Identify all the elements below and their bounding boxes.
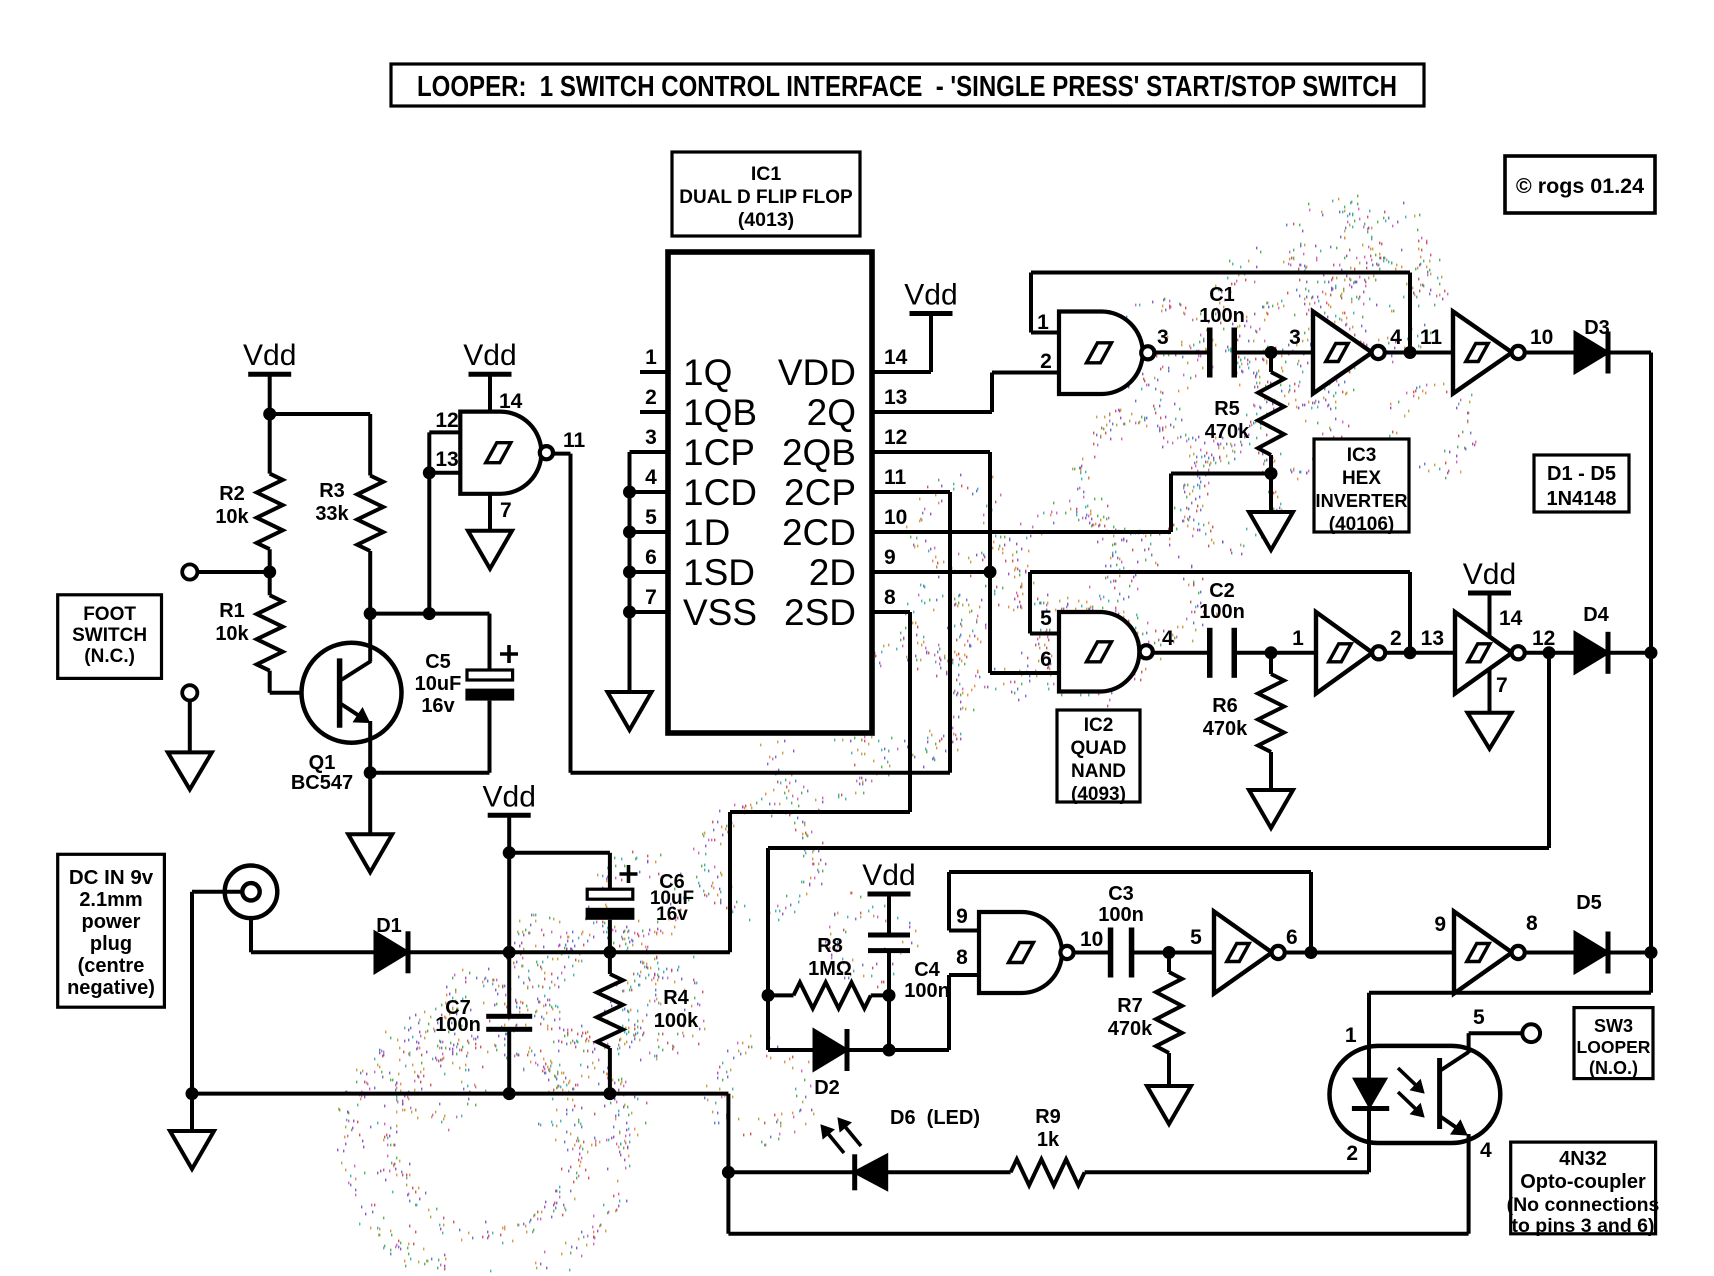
svg-text:HEX: HEX [1342,468,1381,489]
svg-text:negative): negative) [67,977,155,999]
svg-text:9: 9 [884,546,896,569]
svg-text:R4: R4 [663,987,689,1009]
svg-text:SW3: SW3 [1594,1016,1633,1036]
svg-text:C4: C4 [914,959,940,981]
svg-text:Opto-coupler: Opto-coupler [1520,1171,1646,1193]
svg-text:100n: 100n [435,1014,481,1036]
svg-text:1k: 1k [1037,1129,1060,1151]
svg-text:2: 2 [1390,627,1402,650]
svg-text:(centre: (centre [78,955,145,977]
svg-text:4N32: 4N32 [1559,1148,1607,1170]
svg-text:INVERTER: INVERTER [1316,491,1408,511]
svg-text:D4: D4 [1583,604,1609,626]
svg-text:R5: R5 [1214,398,1240,420]
svg-text:470k: 470k [1108,1018,1153,1040]
svg-text:10: 10 [1080,928,1103,951]
svg-text:10: 10 [884,506,907,529]
svg-text:DUAL D FLIP FLOP: DUAL D FLIP FLOP [679,187,853,208]
svg-text:LOOPER: 1 SWITCH CONTROL INTE: LOOPER: 1 SWITCH CONTROL INTERFACE - 'SI… [417,71,1397,103]
svg-text:2QB: 2QB [782,432,856,473]
svg-text:C3: C3 [1108,883,1134,905]
svg-text:Vdd: Vdd [243,339,296,372]
svg-text:12: 12 [435,409,458,432]
svg-text:2SD: 2SD [784,592,856,633]
svg-text:14: 14 [499,390,523,413]
svg-text:LOOPER: LOOPER [1577,1037,1651,1057]
svg-text:5: 5 [645,506,657,529]
svg-text:(N.C.): (N.C.) [84,646,135,667]
svg-text:FOOT: FOOT [83,604,136,625]
svg-text:IC1: IC1 [751,163,782,185]
svg-text:9: 9 [1434,913,1446,936]
svg-text:12: 12 [1532,627,1555,650]
svg-text:9: 9 [956,905,968,928]
svg-text:R3: R3 [319,480,345,502]
svg-text:100n: 100n [1199,305,1245,327]
svg-text:2CD: 2CD [782,512,856,553]
svg-text:11: 11 [563,429,586,452]
svg-text:R6: R6 [1212,695,1238,717]
svg-text:D6 (LED): D6 (LED) [890,1107,980,1129]
svg-text:1CD: 1CD [683,472,757,513]
svg-text:10k: 10k [215,506,249,528]
svg-text:power: power [82,911,141,933]
svg-text:2CP: 2CP [784,472,856,513]
svg-text:NAND: NAND [1071,761,1126,782]
svg-text:(N.O.): (N.O.) [1589,1058,1638,1078]
svg-text:(4093): (4093) [1071,784,1126,805]
svg-text:100n: 100n [1098,904,1144,926]
svg-text:8: 8 [956,946,968,969]
svg-text:Vdd: Vdd [463,339,516,372]
svg-text:12: 12 [884,426,907,449]
svg-text:11: 11 [884,466,907,489]
svg-text:4: 4 [645,466,657,489]
svg-text:R2: R2 [219,483,245,505]
svg-text:D5: D5 [1576,892,1602,914]
svg-text:Q1: Q1 [309,752,336,774]
svg-text:plug: plug [90,933,132,955]
svg-text:Vdd: Vdd [904,279,957,312]
svg-text:8: 8 [884,586,896,609]
svg-text:IC2: IC2 [1084,715,1114,736]
svg-text:3: 3 [645,426,657,449]
svg-text:13: 13 [884,386,907,409]
svg-text:2: 2 [1346,1142,1358,1165]
svg-text:1MΩ: 1MΩ [808,958,852,980]
svg-text:R9: R9 [1035,1106,1061,1128]
svg-text:11: 11 [1420,326,1443,349]
svg-text:16v: 16v [421,695,455,717]
svg-text:QUAD: QUAD [1071,738,1127,759]
svg-text:4: 4 [1480,1139,1492,1162]
svg-text:SWITCH: SWITCH [72,625,147,646]
svg-text:6: 6 [645,546,657,569]
svg-text:5: 5 [1040,607,1052,630]
svg-text:D3: D3 [1584,317,1610,339]
svg-text:© rogs 01.24: © rogs 01.24 [1516,174,1644,198]
svg-text:R7: R7 [1117,995,1143,1017]
svg-text:100n: 100n [904,980,950,1002]
svg-text:VSS: VSS [683,592,757,633]
svg-text:(40106): (40106) [1329,514,1395,535]
svg-text:100n: 100n [1199,601,1245,623]
svg-text:2.1mm: 2.1mm [79,889,142,911]
svg-text:R1: R1 [219,600,245,622]
svg-text:16v: 16v [656,904,688,925]
svg-text:1CP: 1CP [683,432,755,473]
svg-text:C2: C2 [1209,580,1235,602]
svg-text:D2: D2 [814,1077,840,1099]
svg-text:D1: D1 [376,915,402,937]
svg-text:VDD: VDD [778,352,856,393]
svg-text:(No connections: (No connections [1507,1194,1660,1216]
svg-text:1QB: 1QB [683,392,757,433]
svg-text:1Q: 1Q [683,352,732,393]
svg-text:to pins 3 and 6): to pins 3 and 6) [1511,1215,1654,1237]
svg-text:470k: 470k [1203,718,1248,740]
svg-text:IC3: IC3 [1347,445,1377,466]
svg-text:7: 7 [645,586,657,609]
svg-text:2Q: 2Q [807,392,856,433]
svg-text:1: 1 [1037,311,1049,334]
svg-text:5: 5 [1190,926,1202,949]
svg-text:1: 1 [645,346,657,369]
svg-text:C5: C5 [425,651,451,673]
svg-text:1N4148: 1N4148 [1546,488,1616,510]
svg-text:8: 8 [1526,912,1538,935]
svg-text:5: 5 [1473,1006,1485,1029]
svg-text:1D: 1D [683,512,730,553]
svg-text:DC IN 9v: DC IN 9v [69,866,154,889]
svg-text:Vdd: Vdd [483,780,536,813]
svg-text:3: 3 [1157,326,1169,349]
svg-text:7: 7 [500,499,512,522]
svg-text:6: 6 [1286,926,1298,949]
svg-text:2: 2 [1040,350,1052,373]
svg-text:14: 14 [884,346,908,369]
svg-text:100k: 100k [654,1010,699,1032]
svg-text:7: 7 [1496,674,1508,697]
svg-text:Vdd: Vdd [1463,558,1516,591]
svg-text:Vdd: Vdd [862,859,915,892]
svg-text:1: 1 [1292,627,1304,650]
svg-text:1: 1 [1345,1024,1357,1047]
svg-text:2: 2 [645,386,657,409]
svg-text:13: 13 [1421,627,1444,650]
svg-text:14: 14 [1499,607,1523,630]
svg-text:4: 4 [1162,627,1174,650]
svg-text:10k: 10k [215,623,249,645]
svg-text:2D: 2D [809,552,856,593]
svg-text:(4013): (4013) [738,209,794,231]
svg-text:3: 3 [1289,326,1301,349]
svg-text:10uF: 10uF [415,673,462,695]
svg-text:33k: 33k [315,503,349,525]
svg-text:R8: R8 [817,935,843,957]
svg-text:BC547: BC547 [291,772,353,794]
svg-text:6: 6 [1040,648,1052,671]
svg-text:10: 10 [1530,326,1553,349]
svg-text:1SD: 1SD [683,552,755,593]
svg-text:D1 - D5: D1 - D5 [1547,463,1616,485]
svg-text:470k: 470k [1205,421,1250,443]
svg-text:13: 13 [435,448,458,471]
svg-text:4: 4 [1390,326,1402,349]
svg-text:C1: C1 [1209,284,1235,306]
